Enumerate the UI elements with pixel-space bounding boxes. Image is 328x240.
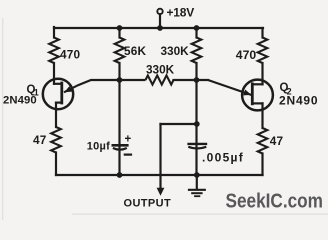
svg-text:470: 470 (60, 48, 81, 62)
svg-text:OUTPUT: OUTPUT (124, 198, 172, 210)
svg-text:2N490: 2N490 (279, 94, 318, 108)
svg-text:+: + (125, 133, 132, 145)
svg-text:330K: 330K (161, 44, 190, 58)
svg-text:47: 47 (270, 134, 284, 148)
svg-text:+18V: +18V (167, 6, 195, 20)
svg-text:10µf: 10µf (87, 141, 110, 153)
svg-text:330K: 330K (146, 62, 175, 76)
svg-text:56K: 56K (124, 44, 147, 58)
svg-text:.005µf: .005µf (202, 150, 244, 164)
svg-text:SeekIC.com: SeekIC.com (226, 189, 323, 212)
svg-text:47: 47 (33, 133, 47, 147)
svg-text:2N490: 2N490 (3, 95, 37, 107)
svg-text:470: 470 (236, 48, 257, 62)
